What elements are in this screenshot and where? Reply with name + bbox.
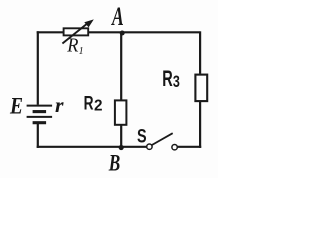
svg-text:3: 3 xyxy=(173,72,180,91)
svg-text:E: E xyxy=(9,94,23,119)
svg-text:1: 1 xyxy=(79,46,84,57)
svg-text:2: 2 xyxy=(94,98,103,115)
svg-text:B: B xyxy=(108,151,120,177)
svg-text:A: A xyxy=(111,2,124,31)
svg-text:S: S xyxy=(137,125,147,147)
svg-text:R: R xyxy=(84,92,94,114)
svg-text:R: R xyxy=(66,35,78,56)
svg-text:r: r xyxy=(55,93,64,117)
svg-text:R: R xyxy=(162,66,173,91)
